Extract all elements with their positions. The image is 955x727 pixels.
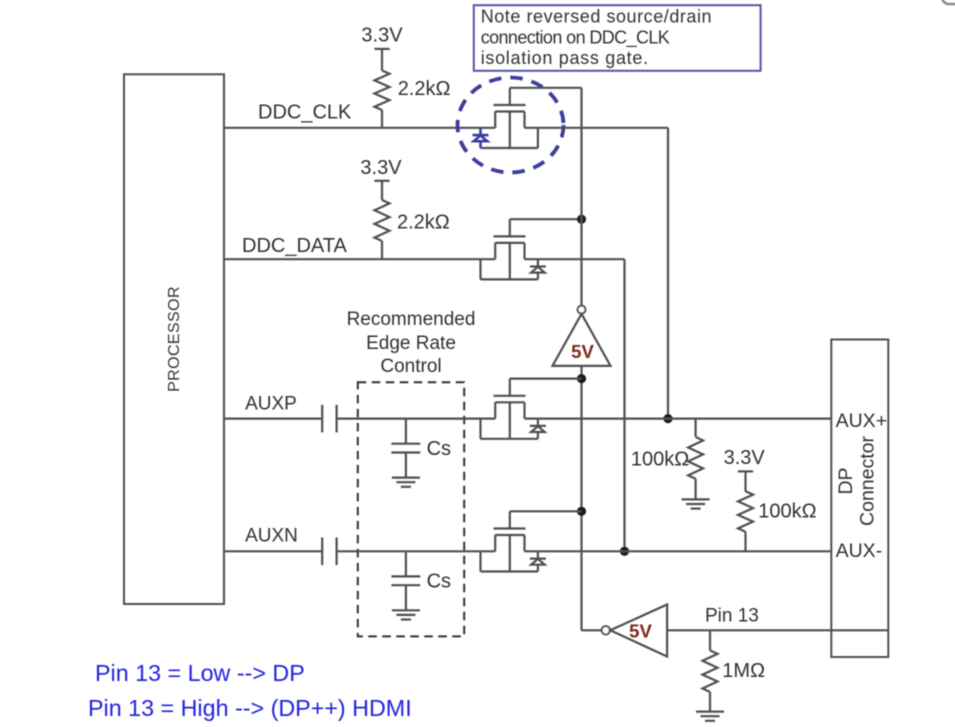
label AUX+ [836,410,887,432]
resistor R5 1M [703,630,718,711]
junction DDC_CLK/AUX+ [663,414,672,423]
junction Q2 gate [577,215,586,224]
label Cs2 [427,571,451,593]
svg-text:Cs: Cs [427,571,451,593]
wire C1 to Q3 [337,418,496,420]
label AUXN [245,525,298,546]
wire DDC_DATA to AUX- [525,259,625,551]
dashed box edge rate control [358,382,464,636]
svg-text:3.3V: 3.3V [360,157,402,179]
svg-text:Pin 13 = High --> (DP++) HDMI: Pin 13 = High --> (DP++) HDMI [88,695,412,721]
resistor R3 100k pulldown [688,419,703,500]
caption pin13 high [88,695,412,721]
inverter U2 label 5V [629,621,652,642]
label DP Connector [835,436,879,526]
svg-text:AUXP: AUXP [245,394,297,415]
wire Q2 gate to net G1 [510,218,582,220]
buffer U1 bubble [578,306,586,314]
pass gate Q1 (reversed, DDC_CLK) [473,88,538,148]
caption pin13 low [95,660,305,686]
svg-text:Control: Control [380,356,441,377]
ground Cs2 [392,610,420,619]
wire Q1 gate to net G1 [510,87,582,89]
svg-text:AUX-: AUX- [836,540,883,562]
wire AUXN from processor [224,550,322,552]
inverter U2 bubble [602,626,610,634]
wire Q3 gate to net G2 [510,378,582,380]
label Pin 13 [705,606,759,627]
svg-text:5V: 5V [629,621,652,642]
coupling cap C1 [322,405,336,433]
svg-text:PROCESSOR: PROCESSOR [166,286,183,392]
svg-text:Pin 13: Pin 13 [705,606,759,627]
svg-text:isolation pass gate.: isolation pass gate. [481,48,649,68]
processor box [124,74,224,604]
label AUX- [836,540,883,562]
buffer U1 triangle [553,314,611,366]
wire AUX+ [525,418,832,420]
wire Pin13 [668,629,889,631]
svg-text:3.3V: 3.3V [361,24,403,46]
svg-text:Recommended: Recommended [347,309,476,330]
label R5 1M [722,660,765,682]
supply 3.3V (DDC_CLK pull-up) [361,24,403,70]
pass gate Q3 (AUXP) [481,379,546,439]
junction Q3 gate [577,374,586,383]
wire DDC_DATA from processor [224,258,495,260]
ground R3 [682,499,710,508]
net G2 vertical (gates of Q3/Q4) [582,366,602,630]
partial UI button top-right corner [942,0,955,4]
label DDC_CLK [258,102,352,124]
label R4 100k [758,501,816,523]
pass gate Q4 (AUXN) [481,511,546,571]
svg-text:100kΩ: 100kΩ [758,501,816,523]
resistor R4 100k pull-up [738,491,753,551]
wire AUXP from processor [224,418,322,420]
capacitor Cs1 [391,419,420,478]
wire AUX- [525,550,832,552]
svg-text:2.2kΩ: 2.2kΩ [398,78,451,100]
note text [481,7,712,69]
svg-text:DDC_CLK: DDC_CLK [258,102,352,124]
label Cs1 [427,438,451,460]
resistor R2 2.2k [375,200,450,259]
label R3 100k [631,448,689,470]
svg-text:Edge Rate: Edge Rate [366,333,456,354]
wire Q4 gate to net G2 [510,510,582,512]
coupling cap C2 [322,538,336,566]
label DDC_DATA [242,235,347,257]
supply 3.3V (DDC_DATA pull-up) [360,157,402,200]
wire DDC_CLK to AUX+ [525,128,669,419]
svg-text:100kΩ: 100kΩ [631,448,689,470]
svg-text:Note reversed source/drain: Note reversed source/drain [481,7,712,27]
junction DDC_DATA/AUX- [620,547,629,556]
svg-text:AUXN: AUXN [245,525,298,546]
text recommended edge rate control [347,309,476,377]
svg-text:2.2kΩ: 2.2kΩ [397,211,450,233]
junction Q4 gate [577,507,586,516]
buffer U1 label 5V [571,341,594,362]
capacitor Cs2 [391,551,420,610]
supply 3.3V (AUX- pull-up) [724,447,766,491]
svg-text:Pin 13 = Low --> DP: Pin 13 = Low --> DP [95,660,305,686]
note box [474,5,761,71]
wire DDC_CLK from processor [224,127,495,129]
net G1 vertical (gates of Q1/Q2) [580,88,582,306]
svg-text:1MΩ: 1MΩ [722,660,765,682]
pass gate Q2 (DDC_DATA) [481,219,546,279]
resistor R1 2.2k [375,71,451,128]
ground Cs1 [392,478,420,487]
svg-text:connection on DDC_CLK: connection on DDC_CLK [481,27,670,48]
ground R5 [696,712,724,721]
inverter U2 triangle [610,605,667,657]
processor label [166,286,183,392]
svg-text:5V: 5V [571,341,594,362]
svg-text:AUX+: AUX+ [836,410,887,432]
highlight dashed circle [458,78,564,173]
svg-text:3.3V: 3.3V [724,447,766,469]
label AUXP [245,394,297,415]
svg-text:Cs: Cs [427,438,451,460]
DP connector box [831,340,888,658]
wire C2 to Q4 [337,550,496,552]
svg-text:DDC_DATA: DDC_DATA [242,235,347,257]
